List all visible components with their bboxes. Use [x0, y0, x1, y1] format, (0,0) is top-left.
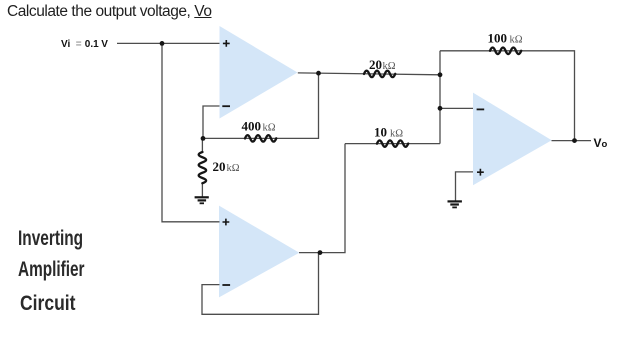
- svg-text:kΩ: kΩ: [510, 35, 523, 46]
- svg-text:10: 10: [374, 125, 387, 140]
- svg-text:20: 20: [369, 57, 382, 72]
- svg-text:=: =: [76, 39, 82, 50]
- svg-text:400: 400: [242, 119, 262, 134]
- svg-text:kΩ: kΩ: [227, 163, 240, 174]
- svg-text:20: 20: [213, 159, 226, 174]
- svg-text:kΩ: kΩ: [263, 123, 276, 134]
- svg-text:0.1: 0.1: [85, 39, 99, 50]
- svg-text:Vi: Vi: [61, 39, 70, 50]
- svg-text:kΩ: kΩ: [390, 129, 403, 140]
- svg-text:kΩ: kΩ: [383, 61, 396, 72]
- svg-text:V: V: [101, 39, 108, 50]
- svg-text:Vo: Vo: [594, 136, 608, 150]
- svg-text:100: 100: [488, 31, 508, 46]
